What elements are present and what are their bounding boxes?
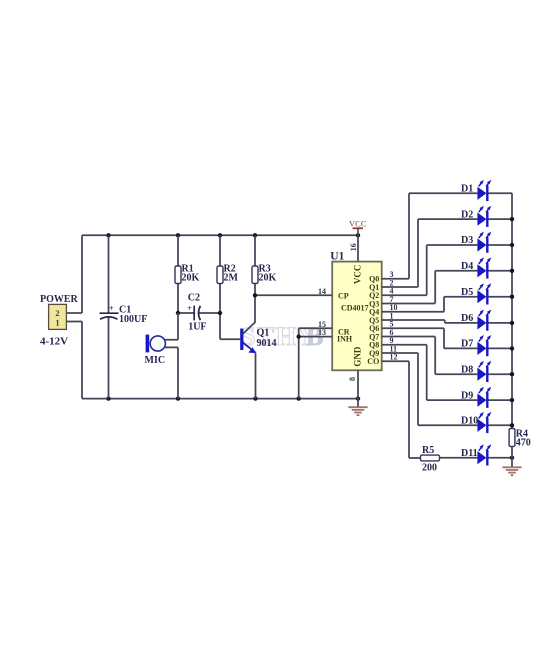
wire D7 cathode to bus	[488, 347, 512, 349]
capacitor C2 1UF	[187, 304, 200, 321]
wire IC pin 4 to D3	[382, 245, 478, 295]
ground symbol below IC	[348, 407, 367, 415]
svg-text:12: 12	[390, 353, 398, 362]
junction dots on top rail	[106, 233, 360, 237]
junction R1/C2/MIC	[176, 311, 180, 315]
wire C1 bottom	[108, 317, 110, 399]
wire Q1 emitter to ground rail	[255, 353, 257, 399]
wire R2 to Q1 base	[220, 338, 240, 340]
junction dots on bottom rail	[106, 396, 360, 400]
wire LED cathode bus	[511, 193, 513, 428]
wire IC pin 3 to D1	[382, 193, 478, 278]
svg-text:470: 470	[516, 438, 531, 449]
wire through R3	[254, 235, 256, 295]
wire D5 cathode to bus	[488, 296, 512, 298]
svg-text:MIC: MIC	[145, 355, 166, 366]
resistor R1 20K	[175, 266, 181, 284]
svg-text:VCC: VCC	[349, 218, 367, 228]
wire IC pin 6 to D8	[382, 337, 478, 375]
svg-text:13: 13	[318, 328, 326, 337]
wire IC pin 12 to D11	[382, 361, 421, 458]
svg-text:D2: D2	[461, 209, 473, 220]
svg-text:14: 14	[318, 287, 326, 296]
LED D2	[477, 206, 491, 227]
ground symbol below R4	[502, 467, 521, 475]
svg-text:1UF: 1UF	[188, 322, 206, 333]
capacitor C1 100UF polarized	[100, 304, 119, 319]
wire D3 cathode to bus	[488, 244, 512, 246]
wire bottom ground rail	[82, 398, 358, 400]
svg-text:D4: D4	[461, 261, 473, 272]
power symbol VCC	[349, 218, 367, 235]
junction R3/CP	[253, 293, 257, 297]
LED D8	[477, 361, 491, 382]
LED D4	[477, 257, 491, 278]
wire R4 to ground	[511, 447, 513, 468]
wire IC pin 1 to D6	[382, 320, 478, 323]
svg-text:CO: CO	[367, 357, 379, 366]
svg-text:VCC: VCC	[352, 265, 362, 285]
wire R1 bottom to C2 left plate (node with MIC)	[178, 312, 194, 314]
wire left vertical from connector pin 2 up to top rail	[67, 235, 83, 313]
wire IC pin 10 to D5	[382, 297, 478, 312]
LED D10	[477, 412, 491, 433]
wire pin 14 CP from R3 node	[255, 294, 332, 296]
wire D10 cathode to bus	[488, 424, 512, 426]
IC U1 CD4017	[332, 262, 382, 371]
junction CR/INH	[297, 334, 301, 338]
svg-text:+: +	[187, 304, 192, 313]
svg-text:CP: CP	[338, 292, 349, 301]
junction C2/R2/Q1 base	[218, 311, 222, 315]
wire IC pin 5 to D7	[382, 328, 478, 348]
wire pin 13 INH down to ground rail	[299, 337, 333, 399]
svg-text:1: 1	[55, 317, 59, 327]
svg-text:GND: GND	[352, 346, 362, 367]
svg-text:4-12V: 4-12V	[40, 336, 68, 348]
svg-text:D7: D7	[461, 339, 473, 350]
svg-text:16: 16	[349, 243, 358, 251]
wire D4 cathode to bus	[488, 270, 512, 272]
wire C1 top	[108, 235, 110, 312]
wire IC pin 16 (VCC)	[357, 235, 359, 261]
svg-text:D5: D5	[461, 287, 473, 298]
wire through R1	[177, 235, 179, 313]
wire D9 cathode to bus	[488, 399, 512, 401]
svg-text:D1: D1	[461, 184, 473, 195]
wire D1 cathode to bus	[488, 192, 512, 194]
resistor R2 2M	[217, 266, 223, 284]
resistor R4 470	[509, 429, 515, 447]
wire R3 to Q1 collector	[254, 295, 256, 322]
LED D5	[477, 283, 491, 304]
wire IC pin 11 to D10	[382, 353, 478, 425]
wire D8 cathode to bus	[488, 373, 512, 375]
connector J1 POWER	[49, 304, 67, 329]
svg-text:D11: D11	[461, 448, 478, 459]
wire IC pin 9 to D9	[382, 345, 478, 400]
wire left vertical from connector pin 1 down to bottom rail	[67, 322, 83, 399]
wire MIC top terminal	[165, 313, 178, 340]
wire D6 cathode to bus	[488, 322, 512, 324]
wire IC pin 2 to D2	[382, 219, 478, 287]
LED D3	[477, 232, 491, 253]
microphone MIC	[146, 335, 166, 353]
junction dots on bus	[510, 217, 514, 460]
LED D9	[477, 387, 491, 408]
wire D11 cathode to bus	[488, 457, 512, 459]
svg-text:C2: C2	[188, 293, 200, 304]
svg-text:CD4017: CD4017	[341, 304, 369, 313]
svg-text:100UF: 100UF	[119, 314, 147, 325]
svg-text:U1: U1	[330, 250, 344, 262]
svg-text:D8: D8	[461, 364, 473, 375]
LED D1	[477, 180, 491, 201]
svg-text:2M: 2M	[224, 272, 239, 283]
wire IC pin 7 to D4	[382, 271, 478, 304]
svg-text:D9: D9	[461, 390, 473, 401]
svg-text:20K: 20K	[259, 272, 277, 283]
svg-text:20K: 20K	[182, 272, 200, 283]
wire top VCC rail	[82, 234, 358, 236]
svg-text:8: 8	[348, 377, 357, 381]
resistor R5 200	[421, 455, 440, 461]
wire D2 cathode to bus	[488, 218, 512, 220]
svg-text:D10: D10	[461, 416, 478, 427]
svg-text:D6: D6	[461, 313, 473, 324]
wire C2 right plate to R2	[198, 312, 220, 314]
wire IC pin 8 (GND)	[357, 370, 359, 407]
resistor R3 20K	[252, 266, 258, 284]
svg-text:INH: INH	[337, 335, 353, 344]
svg-text:POWER: POWER	[40, 294, 79, 305]
svg-text:200: 200	[422, 463, 437, 474]
LED D7	[477, 335, 491, 356]
svg-text:+: +	[109, 304, 114, 313]
LED D11	[477, 444, 491, 465]
svg-text:D3: D3	[461, 235, 473, 246]
wire R5 to D11	[440, 457, 478, 459]
wire through R2	[219, 235, 221, 339]
transistor Q1 9014 NPN	[242, 322, 256, 353]
wire MIC bottom terminal	[165, 347, 178, 398]
wire pin 15 CR	[299, 328, 333, 336]
svg-text:R5: R5	[422, 445, 434, 456]
svg-text:9014: 9014	[257, 338, 277, 349]
LED D6	[477, 310, 491, 331]
